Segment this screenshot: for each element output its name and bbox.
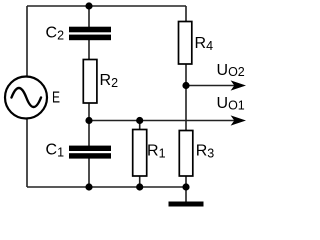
svg-text:E: E: [52, 89, 60, 106]
resistor R4: [179, 22, 192, 65]
node mid junction R1: [136, 117, 143, 124]
voltage source E: [5, 77, 47, 119]
wire R3 bottom lead to ground: [185, 175, 187, 202]
ground: [169, 202, 204, 207]
wire mid horizontal output line UO1: [89, 120, 238, 122]
arrowhead UO1 output: [231, 115, 246, 125]
wire R4 top lead: [185, 6, 187, 22]
wire C2 top lead: [88, 6, 90, 28]
capacitor C2: [69, 27, 111, 40]
wire left vertical lower (source bottom lead): [26, 119, 28, 187]
wire top horizontal from source to R4: [27, 5, 186, 7]
wire R4 bottom to R3 top through UO2 node: [185, 63, 187, 131]
resistor R2: [83, 60, 97, 104]
node top junction C2/source: [85, 2, 92, 9]
wire bottom horizontal: [27, 186, 186, 188]
wire R1 bottom lead: [139, 175, 141, 187]
resistor R3: [179, 131, 193, 177]
node bottom junction C1: [85, 183, 92, 190]
wire mid node to C1: [88, 120, 90, 147]
node bottom junction R3: [182, 183, 189, 190]
capacitor C1: [69, 146, 111, 159]
svg-text:UO1: UO1: [217, 95, 245, 112]
wire left vertical upper (source top lead): [26, 6, 28, 77]
wire R1 top lead: [139, 121, 141, 131]
wire C1 bottom lead: [88, 158, 90, 187]
wire R2 bottom lead to mid node: [88, 102, 90, 121]
arrowhead UO2 output: [231, 80, 246, 90]
node UO2 junction below R4: [182, 82, 189, 89]
node bottom junction R1: [136, 183, 143, 190]
svg-text:UO2: UO2: [217, 62, 245, 79]
wire C2 to R2: [88, 40, 90, 60]
wire UO2 output line: [186, 85, 238, 87]
resistor R1: [133, 130, 147, 177]
node mid junction R2/C1: [85, 117, 92, 124]
